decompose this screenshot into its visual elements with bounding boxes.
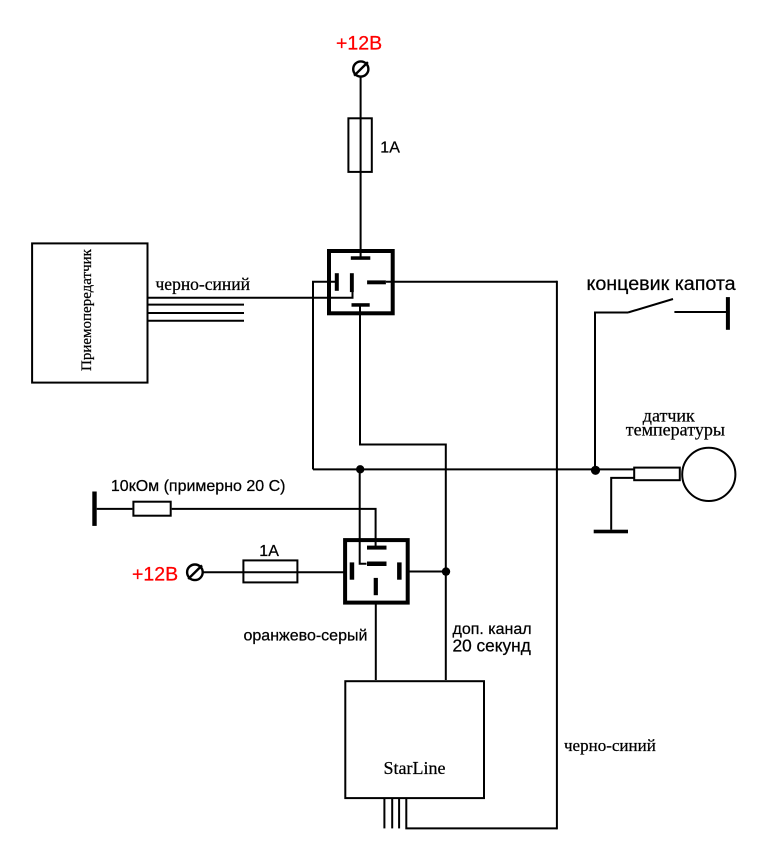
fuse F2 xyxy=(243,560,297,582)
wire: K2 right pin to aux vertical xyxy=(409,571,446,573)
wire: sensor line junction to K2 coil pin xyxy=(360,469,367,563)
junction dot B (K2 right / aux channel) xyxy=(442,567,450,575)
relay K2 bottom pin xyxy=(374,578,378,595)
svg-text:20 секунд: 20 секунд xyxy=(453,636,531,656)
hood switch right lead xyxy=(674,311,727,313)
svg-text:оранжево-серый: оранжево-серый xyxy=(244,628,368,645)
wire: terminal to resistor xyxy=(97,508,133,510)
relay K1 body xyxy=(329,251,393,313)
svg-text:1А: 1А xyxy=(380,140,400,157)
wire: transceiver to relay K1 coil pin (черно-синий) xyxy=(149,292,353,298)
StarLine box xyxy=(345,681,484,798)
transceiver stub wire 3 xyxy=(149,320,245,322)
relay K2 body xyxy=(345,540,408,603)
wire: K1 left pin down to sensor line xyxy=(313,282,336,470)
terminal bar (10кОм input) xyxy=(92,492,96,526)
wire: K2 bottom pin to StarLine xyxy=(375,603,377,680)
svg-text:10кОм (примерно 20 С): 10кОм (примерно 20 С) xyxy=(111,478,286,495)
wire: main sensor line xyxy=(313,468,634,470)
relay K1 right pin xyxy=(367,280,386,284)
svg-text:Приемопередатчик: Приемопередатчик xyxy=(79,248,95,371)
transceiver box xyxy=(32,243,147,382)
relay K2 left pin xyxy=(350,562,355,579)
hood switch left lead xyxy=(595,313,628,471)
StarLine stub wire 3 xyxy=(398,799,400,828)
transceiver stub wire 1 xyxy=(149,304,245,306)
power terminal circle (bottom) xyxy=(187,565,203,581)
relay K2 coil pin xyxy=(367,562,387,567)
ground bar xyxy=(594,530,628,534)
power terminal circle (top) xyxy=(353,61,368,76)
wire: K1 bottom pin to aux channel vertical xyxy=(360,305,446,680)
svg-text:StarLine: StarLine xyxy=(384,758,446,778)
wire: K1 right pin to черно-синий vertical xyxy=(386,281,557,283)
StarLine stub wire 1 xyxy=(383,799,385,828)
svg-text:+12В: +12В xyxy=(336,33,382,55)
junction dot A (sensor line / K2 coil) xyxy=(356,465,364,473)
svg-text:+12В: +12В xyxy=(132,563,178,585)
wire: черно-синий vertical run xyxy=(556,281,558,830)
relay K1 coil pin xyxy=(350,273,354,292)
wire: bottom run to StarLine xyxy=(406,799,557,828)
relay K1 bottom pin xyxy=(352,303,370,307)
wire: resistor to K2 top pin xyxy=(172,509,376,546)
svg-text:температуры: температуры xyxy=(626,420,725,440)
svg-text:концевик капота: концевик капота xyxy=(587,273,736,295)
svg-text:черно-синий: черно-синий xyxy=(564,736,656,755)
wire: sensor ground lead xyxy=(611,478,633,530)
svg-text:черно-синий: черно-синий xyxy=(156,274,251,294)
transceiver stub wire 2 xyxy=(149,312,245,314)
relay K1 top pin xyxy=(351,256,371,260)
svg-text:1А: 1А xyxy=(259,543,279,560)
wire: +12V terminal to relay K1 top pin xyxy=(360,77,362,257)
StarLine stub wire 2 xyxy=(391,799,393,828)
junction dot C (sensor line / hood switch) xyxy=(591,466,600,475)
resistor R1 10кОм xyxy=(133,502,170,516)
relay K2 top pin xyxy=(367,546,387,550)
wire: +12V terminal to relay K2 left pin xyxy=(203,571,344,573)
relay K1 left pin xyxy=(335,273,339,291)
fuse F1 xyxy=(348,118,371,172)
hood switch arm xyxy=(628,299,673,313)
relay K2 right pin xyxy=(397,562,402,579)
temperature sensor body xyxy=(634,468,680,481)
temperature sensor bulb xyxy=(682,448,735,501)
hood switch right terminal bar xyxy=(726,297,730,330)
